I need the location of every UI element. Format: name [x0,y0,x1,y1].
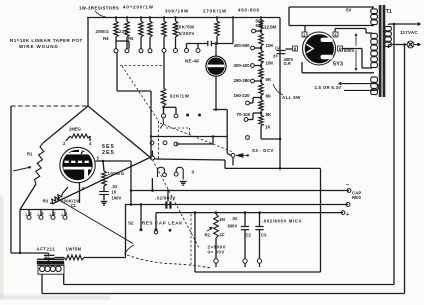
svg-text:C4: C4 [275,45,281,50]
svg-text:1W/5M: 1W/5M [66,247,82,252]
svg-text:ALL 5W: ALL 5W [282,95,301,100]
svg-text:2=: 2= [273,53,278,58]
svg-text:.02: .02 [44,254,50,259]
svg-text:8K: 8K [266,94,272,99]
svg-text:12.5M: 12.5M [264,24,277,29]
svg-text:O.P.: O.P. [284,61,292,66]
svg-text:S2: S2 [128,220,134,225]
svg-text:J: J [25,213,27,217]
svg-text:FF: FF [220,232,226,237]
svg-text:8K: 8K [266,112,272,117]
svg-text:J: J [49,213,51,217]
svg-text:R2: R2 [205,232,211,237]
svg-text:.02/900V: .02/900V [155,195,176,200]
svg-text:.002/600V MICA: .002/600V MICA [262,219,302,224]
svg-text:1W-3RESISTORS: 1W-3RESISTORS [79,5,119,10]
svg-text:2.5 OR 6.3V: 2.5 OR 6.3V [315,85,342,90]
svg-text:5Y3: 5Y3 [333,62,343,68]
svg-text:1K: 1K [265,125,271,130]
svg-text:0= 30V: 0= 30V [208,250,225,255]
svg-text:23K: 23K [119,29,129,34]
svg-text:50K/5W: 50K/5W [176,25,195,30]
svg-text:5K: 5K [266,77,272,82]
svg-text:RES: RES [352,195,361,200]
svg-text:.02: .02 [232,216,238,221]
svg-text:400-500: 400-500 [234,43,251,48]
svg-text:R1: R1 [27,152,33,157]
svg-text:S: S [192,170,195,175]
svg-text:30K/10W: 30K/10W [165,9,189,14]
svg-text:−: − [346,182,349,188]
svg-text:R5: R5 [128,36,134,41]
svg-text:2MEG: 2MEG [96,29,110,34]
svg-text:2E5: 2E5 [102,150,115,156]
svg-text:T1: T1 [386,9,392,15]
svg-text:R1=10K LINEAR TAPER POT: R1=10K LINEAR TAPER POT [10,38,83,43]
svg-text:10K: 10K [266,60,275,65]
svg-text:70-100: 70-100 [237,112,251,117]
svg-text:NE-48: NE-48 [185,59,199,64]
svg-text:1M: 1M [219,217,225,222]
svg-text:600V: 600V [228,223,238,228]
svg-text:10MEG: 10MEG [108,171,125,176]
svg-text:R3: R3 [43,199,49,204]
svg-text:300-400: 300-400 [234,63,251,68]
svg-text:R4: R4 [103,36,109,41]
svg-text:280-380: 280-380 [234,78,251,83]
svg-text:270K/1W: 270K/1W [203,9,227,14]
svg-text:10K: 10K [266,43,275,48]
svg-text:117VAC: 117VAC [400,30,418,35]
svg-text:1MEG: 1MEG [69,127,81,132]
svg-text:RES CAP LEAK: RES CAP LEAK [142,220,183,225]
svg-text:.5/200V: .5/200V [177,31,195,36]
svg-text:J: J [61,213,63,217]
svg-text:650: 650 [256,23,264,28]
svg-text:C2: C2 [246,232,252,237]
svg-text:AFT211: AFT211 [37,247,56,252]
svg-text:S3 - DCV: S3 - DCV [252,148,274,153]
svg-text:J: J [37,213,39,217]
svg-text:5V: 5V [346,8,351,13]
svg-text:160-220: 160-220 [234,93,251,98]
svg-text:WIRE WOUND: WIRE WOUND [19,44,59,49]
svg-text:.02: .02 [112,184,118,189]
svg-text:40+200/1W: 40+200/1W [123,5,154,10]
svg-text:62K/1W: 62K/1W [170,94,190,99]
svg-text:100V: 100V [112,196,122,201]
svg-text:450-800: 450-800 [238,8,260,13]
svg-text:10: 10 [112,190,117,195]
svg-text:C3: C3 [261,232,267,237]
